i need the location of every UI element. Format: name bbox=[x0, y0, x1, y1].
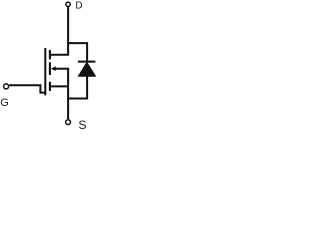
diode D1 anode triangle bbox=[79, 63, 96, 77]
channel segment (body) bbox=[49, 62, 51, 75]
wire: source stub from bottom channel segment bbox=[50, 85, 68, 87]
svg-text:G: G bbox=[0, 97, 9, 109]
svg-text:D: D bbox=[75, 1, 82, 12]
arrowhead (points to channel) bbox=[51, 66, 56, 71]
wire: body connection with arrow bbox=[55, 68, 68, 70]
diode D1 cathode bar bbox=[78, 61, 96, 63]
svg-text:S: S bbox=[78, 118, 86, 132]
terminal G (gate) circle bbox=[4, 84, 9, 89]
wire: diode anode down and back to source trunk bbox=[67, 76, 87, 99]
channel segment (source) bbox=[49, 82, 51, 91]
terminal D (drain) circle bbox=[66, 2, 70, 6]
terminal S (source) circle bbox=[66, 120, 71, 125]
wire: gate lead with elbow to gate bar bottom bbox=[9, 85, 46, 92]
wire: source trunk down to S terminal bbox=[67, 68, 69, 119]
background bbox=[0, 0, 103, 135]
wire: drain lead from D circle down to channel top stub bbox=[50, 7, 68, 55]
wire: drain branch to body diode cathode bbox=[67, 43, 87, 62]
channel segment (drain) bbox=[49, 50, 51, 59]
N-channel MOSFET with body diode schematic bbox=[0, 0, 103, 135]
transistor Q1 gate bar bbox=[44, 48, 46, 95]
